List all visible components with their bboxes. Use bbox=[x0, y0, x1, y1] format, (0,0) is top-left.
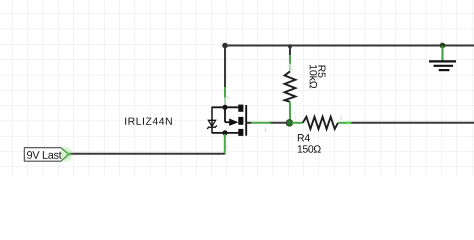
net label flag 9V Last bbox=[24, 145, 74, 163]
Q1 bottom bar (source rail) bbox=[212, 132, 239, 134]
Q1 top bar (drain rail) bbox=[212, 106, 239, 108]
svg-text:2: 2 bbox=[340, 115, 343, 120]
R5 pin 1 leg bbox=[289, 102, 291, 120]
Q1 body diode (zener) bbox=[208, 120, 215, 126]
label R4 bbox=[298, 134, 310, 141]
label 10kΩ (rotated) bbox=[310, 65, 318, 88]
junction dot at gate node bbox=[286, 120, 292, 126]
wire: source wire to net flag bbox=[69, 153, 225, 155]
Q1 drain pin leg bbox=[224, 87, 226, 98]
R4 zigzag body bbox=[303, 117, 338, 129]
ground symbol GND bbox=[429, 43, 456, 71]
resistor R5 bbox=[285, 44, 297, 120]
label IRLIZ44N bbox=[125, 118, 172, 125]
R5 zigzag body bbox=[285, 71, 296, 101]
transistor Q1 IRLIZ44N bbox=[207, 87, 271, 155]
R4 pin 1 leg bbox=[338, 122, 351, 124]
Q1 gate plate bbox=[245, 105, 247, 136]
label 150Ω bbox=[298, 145, 321, 152]
Q1 source pin leg bbox=[224, 134, 226, 154]
label R5 (rotated) bbox=[318, 66, 325, 78]
Q1 internal vertical (body tie) bbox=[224, 107, 226, 122]
R5 top connection dot bbox=[288, 44, 292, 48]
R5 pin 0 leg bbox=[289, 46, 291, 55]
Q1 channel segments bbox=[238, 105, 243, 112]
resistor R4 bbox=[292, 115, 351, 129]
R4 pin 0 leg bbox=[292, 122, 303, 124]
wire: gate wire from Q1 to junction bbox=[269, 122, 287, 124]
junction bendpoint at top-left corner bbox=[222, 43, 228, 49]
Q1 junction dot drain bbox=[222, 105, 227, 110]
wire: top rail from drain bend to right edge bbox=[225, 45, 474, 47]
wire: vertical drop from top rail to Q1 drain bbox=[224, 46, 226, 88]
wire: from R4 to right edge bbox=[351, 122, 474, 124]
Q1 body arrow bbox=[225, 121, 230, 123]
Q1 gate pin leg bbox=[247, 122, 252, 124]
Q1 junction dot source bbox=[222, 130, 227, 135]
